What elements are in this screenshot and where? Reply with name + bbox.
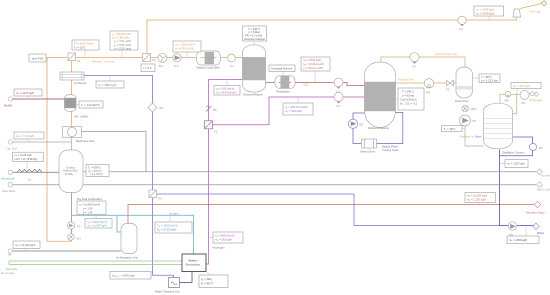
svg-text:yₚ = 89.68 vol%: yₚ = 89.68 vol% [112,32,131,36]
wire navy water product [500,225,535,227]
pump P5 [460,115,477,126]
svg-text:mₜ = 1187 kg/h: mₜ = 1187 kg/h [507,162,525,166]
rehydrator vessel [275,76,295,94]
svg-text:T = 38°C: T = 38°C [481,75,492,79]
label box recycle conditions [72,40,99,58]
screw feeder S1 [17,169,42,181]
wire purple hydrogen riser [206,80,243,265]
wire navy water treatment link [180,272,193,283]
valve V2 [205,121,218,134]
label box MeOH feed [14,89,42,99]
compressor C4 [410,53,419,69]
label box ethanol reactor data [243,26,267,45]
svg-text:Activated Alumina: Activated Alumina [271,67,293,71]
svg-text:V3: V3 [446,88,450,92]
wire olive purge overhead [500,94,534,103]
bottom ash diamond [537,182,543,188]
label box oxygen makeup [155,215,192,233]
label box nitrogen argon [465,193,496,205]
svg-text:V1: V1 [77,59,81,63]
svg-text:GR - SiAlKL: GR - SiAlKL [74,115,89,119]
svg-text:V6: V6 [152,58,156,62]
svg-text:Oxygen: Oxygen [169,211,179,215]
svg-text:ηₖ = 320ₖₖ: ηₖ = 320ₖₖ [201,277,214,281]
wire orange product gas [396,82,458,84]
compressor C2 [334,78,343,94]
svg-text:C3: C3 [336,104,340,108]
svg-text:VP4: VP4 [471,107,477,111]
pump P3 [67,222,81,229]
svg-text:Vₖ = 171 m³: Vₖ = 171 m³ [88,169,102,173]
svg-text:Cooling Cycle: Cooling Cycle [382,148,399,152]
label methanol water [460,134,482,138]
svg-text:M3: M3 [426,91,430,95]
wire olive unconverted gas loop [381,57,465,67]
wire dark woodchips feed [13,171,60,173]
svg-text:Electricity: Electricity [6,267,18,271]
svg-text:mₙ = 11,594 kg/h: mₙ = 11,594 kg/h [467,194,488,198]
condenser HX [60,72,87,85]
svg-text:B2: B2 [160,106,164,110]
svg-text:B-1: B-1 [159,64,164,68]
svg-text:T = 240°C: T = 240°C [402,90,414,94]
svg-text:nₐ = 13.09 kmol/h: nₐ = 13.09 kmol/h [303,62,324,66]
label box electrolyzer data [199,272,228,288]
svg-text:Water: Water [537,231,544,235]
label box vapor fraction [141,64,155,72]
svg-text:Steam Drum: Steam Drum [360,150,376,154]
svg-text:Purge gas: Purge gas [530,98,543,102]
wire dark-red CO2 line [266,83,366,86]
wire gray liquid water line [13,141,72,143]
label box flue to flare [474,6,504,20]
fly ash diamond [537,169,543,175]
svg-text:mₙ = 107 kg/h: mₙ = 107 kg/h [513,84,530,88]
svg-text:V2: V2 [214,130,218,134]
svg-text:Dry Fuel Combustion: Dry Fuel Combustion [77,197,103,201]
svg-text:Absolute Catalyst: Absolute Catalyst [244,37,265,41]
svg-text:PR = 0.2 vol%: PR = 0.2 vol% [245,34,263,38]
svg-text:nₘ = 6493 Nm³/h: nₘ = 6493 Nm³/h [87,220,108,224]
svg-text:nₚ = 193 Nm³/h: nₚ = 193 Nm³/h [216,87,235,91]
svg-text:mₚ = 8.03 kmol/h: mₚ = 8.03 kmol/h [216,90,237,94]
steam drum [360,139,377,154]
svg-text:Tₖ = 850°C: Tₖ = 850°C [88,165,101,169]
label box recycle composition [110,31,138,58]
svg-text:mₐ = 1,150 kg/h: mₐ = 1,150 kg/h [467,198,486,202]
svg-text:τ = 1.3 s(?): τ = 1.3 s(?) [90,172,103,176]
valve VP4 [462,105,476,111]
label boiling water cycle [382,145,399,153]
svg-text:mₐ = 5791 kg/h: mₐ = 5791 kg/h [303,58,322,62]
node Vent PSA [29,54,46,62]
svg-text:P-2: P-2 [174,64,179,68]
svg-text:mₐ = 14,000 kg/h: mₐ = 14,000 kg/h [15,243,36,247]
label box H2 to reactor [214,80,240,96]
junction diamond B2 [148,103,163,112]
svg-text:B3: B3 [360,123,364,127]
label box purge flow [511,83,541,95]
nitrogen diamond [534,201,540,207]
wire blue reboiler loop [500,137,533,156]
label box activated alumina [269,65,295,76]
svg-text:p = 19bar: p = 19bar [249,30,261,34]
guard bed vessel [196,51,221,70]
compressor C3 [334,93,343,109]
VdB vessel [65,94,89,118]
svg-text:MeOH: MeOH [4,104,12,108]
svg-text:Tₖ = 38°C: Tₖ = 38°C [444,127,456,131]
svg-text:T = 240°C: T = 240°C [248,27,260,31]
label electricity [1,267,18,275]
svg-text:mₘ₂ₖ ₖ = 5056 kg/h: mₘ₂ₖ ₖ = 5056 kg/h [112,274,135,278]
svg-text:Methanol Reactor: Methanol Reactor [368,126,389,130]
svg-text:Bottom ash: Bottom ash [537,188,550,192]
ethanol reactor [243,45,266,97]
methanol reactor [365,62,396,130]
svg-text:p = 1-23.5 bar: p = 1-23.5 bar [481,78,498,82]
distillation column [484,103,525,154]
svg-text:Pₖ = 98 77: Pₖ = 98 77 [201,282,214,286]
svg-text:x = 0.5: x = 0.5 [143,66,152,70]
svg-text:Cu/ZnO/Al₂O₃: Cu/ZnO/Al₂O₃ [400,98,417,102]
wire blue condensate [84,76,153,191]
svg-text:M5: M5 [505,99,509,103]
svg-text:Ethanol Reactor: Ethanol Reactor [244,93,263,97]
wire gray flue gas out [83,171,536,173]
terminal liq water [8,140,12,144]
wire red nitrogen-argon [128,205,534,225]
terminal woodchips [8,170,12,174]
label box H2 to methanol [283,97,313,115]
svg-text:Water Treatment Unit: Water Treatment Unit [155,290,180,294]
wire gray bottom ash out [13,184,537,186]
wire gray filter branch [82,132,147,172]
svg-text:H₂ : CO₂ = 3:1: H₂ : CO₂ = 3:1 [400,102,418,106]
pump P2 [173,54,181,68]
valve V4 [149,190,162,201]
label box air feed [13,241,40,251]
water treatment unit [155,278,180,294]
label box incinerator data [86,165,109,177]
wire recycle main orange [46,57,243,59]
wire dark-red MeOH feed [13,98,66,100]
svg-text:nₑ = 8.35 Nm³/h: nₑ = 8.35 Nm³/h [175,47,194,51]
wire dark air feed [13,250,122,252]
svg-text:yₛ = 7.61 vol%: yₛ = 7.61 vol% [114,39,132,43]
svg-text:Unconverted Gas: Unconverted Gas [435,52,457,56]
svg-text:Electrolyzer: Electrolyzer [186,263,201,267]
svg-text:mₖ = 2244 kg/h: mₖ = 2244 kg/h [476,7,495,11]
wire orange vertical to combustor [47,58,72,242]
wire teal oxygen header [72,215,194,254]
svg-text:CO₂: CO₂ [304,83,309,87]
pump P6w [508,222,516,237]
gauge M3 [424,79,433,95]
svg-text:Pₐ = 6023 Pa(G): Pₐ = 6023 Pa(G) [74,42,94,46]
wire orange flare header [147,17,517,54]
svg-text:Nitrogen Argon: Nitrogen Argon [526,211,545,215]
svg-text:nₚ = 260.07 kmol/h: nₚ = 260.07 kmol/h [285,105,308,109]
wire teal oxygen ASU branch [117,215,121,232]
svg-text:P6: P6 [522,101,526,105]
svg-text:P3: P3 [77,225,81,229]
water diamond [533,223,539,229]
svg-text:B5: B5 [213,108,217,112]
terminal bed sand [8,183,12,187]
svg-text:Woodchips: Woodchips [1,177,15,181]
svg-text:20 MWₜₚ: 20 MWₜₚ [65,173,74,176]
alkaline electrolyzer [182,254,206,272]
label box CO2 stream [301,57,330,83]
svg-text:C4: C4 [412,65,416,69]
svg-text:Pₘ = 271/2 kg/h: Pₘ = 271/2 kg/h [157,228,177,232]
svg-text:Condenser: Condenser [74,81,87,85]
flash drum [455,67,472,103]
svg-text:Recycle - Dry mix: Recycle - Dry mix [92,60,115,64]
label box liq water flow [14,132,44,142]
svg-text:Tₘ = 1500 Nm³/h: Tₘ = 1500 Nm³/h [157,224,178,228]
svg-text:Ultra Sand: Ultra Sand [2,189,16,193]
svg-text:nₚ = 2900 Nm³/h: nₚ = 2900 Nm³/h [215,234,235,238]
svg-text:C5: C5 [459,27,463,31]
svg-text:Rehydrator: Rehydrator [277,90,290,94]
svg-text:Flue Gas: Flue Gas [530,10,542,14]
valve V6 [143,54,156,63]
svg-text:Tₖ = 140-610°C: Tₖ = 140-610°C [81,103,100,107]
terminal air [8,249,12,253]
svg-text:Air: Air [8,253,11,257]
svg-text:Tₐ = 25°C: Tₐ = 25°C [74,46,86,50]
blower B1 [158,53,167,68]
svg-text:Vent PSA: Vent PSA [32,56,44,60]
label box oxygen flow [85,215,112,228]
svg-text:P5: P5 [473,119,477,123]
svg-text:Boiling Water: Boiling Water [382,145,398,149]
label box compressor duty [173,41,201,58]
svg-text:α = 1.06: α = 1.06 [83,206,93,210]
svg-text:y₝ = 13.81 ppm: y₝ = 13.81 ppm [114,46,132,50]
svg-text:Liq. H₂O: Liq. H₂O [7,146,18,150]
wire feed to column [465,126,484,146]
svg-text:mₖ = 2240 kg/h: mₖ = 2240 kg/h [476,11,495,15]
gauge M5 [505,91,511,102]
svg-text:Distillation Column: Distillation Column [502,151,525,155]
wire navy column bottoms [499,150,501,226]
terminal MeOH [8,97,12,101]
check valve H2 [206,106,217,112]
label box methanol temp [442,126,466,132]
label box water product [507,226,539,243]
svg-text:mₖ = 1150 kg/h: mₖ = 1150 kg/h [509,238,528,242]
blower W1 [68,234,82,241]
svg-text:mₘ = 6,687 kg/h: mₘ = 6,687 kg/h [87,224,107,228]
wire purple hydrogen to methanol reactor [213,97,366,125]
svg-text:S1: S1 [28,178,32,182]
wire orange condenser chain [71,60,73,150]
pump B3 [348,119,363,128]
flare stack [513,9,521,17]
svg-text:Hydrogen: Hydrogen [213,246,226,250]
circle C1 [228,54,236,68]
svg-text:mₚ = 524 kg/h: mₚ = 524 kg/h [285,109,302,113]
label box flash drum data [472,74,500,83]
svg-text:yₐ = 99 vol.-vol%: yₐ = 99 vol.-vol% [303,66,324,70]
svg-text:mₗ = 6128 kg/h: mₗ = 6128 kg/h [15,153,33,157]
label box biomass feed [13,152,44,172]
label dry fuel combustion [77,197,106,215]
svg-text:C1: C1 [230,64,234,68]
incinerator vessel [59,150,83,193]
ASU vessel [116,224,138,260]
svg-text:Baghouse Filter: Baghouse Filter [76,139,95,143]
svg-text:Water: Water [475,134,482,138]
svg-text:mₘ = 7.23 kg/h: mₘ = 7.23 kg/h [16,134,35,138]
wire combustor downcomer [71,193,73,242]
wire olive reflux return [513,94,517,114]
svg-text:V4: V4 [158,197,162,201]
valve V1 [68,53,81,63]
compressor C5 [458,16,466,31]
svg-text:p = 80 bar: p = 80 bar [402,94,414,98]
svg-text:(to on-site): (to on-site) [1,271,14,275]
svg-text:mₖ = 1147 kg/h: mₖ = 1147 kg/h [16,91,35,95]
svg-text:B4: B4 [539,146,543,150]
svg-text:Methanol: Methanol [460,134,471,138]
wire blue condensate to water outlet [157,194,500,226]
wire orange flare tip to diamond [520,3,542,8]
purge diamond [534,92,538,96]
flue gas diamond [541,1,546,6]
label box bottoms flow [500,160,528,168]
svg-text:Flash Drum: Flash Drum [455,99,470,103]
label box VdB temp [76,101,103,108]
label box condensate flow [96,76,124,89]
wire green electricity pair [9,261,182,265]
svg-text:Fly ash: Fly ash [541,173,550,177]
svg-text:yₜ = 8.01 vol%: yₜ = 8.01 vol% [114,43,132,47]
pump B4 [529,143,543,150]
svg-text:β = 1.46: β = 1.46 [83,210,93,214]
regenerator filter [63,127,95,144]
label box hydrogen flow [209,232,243,243]
label box makeup water [110,272,151,280]
wire blue steam drum loop [353,113,403,144]
svg-text:mₖ = 4894 kg/h: mₖ = 4894 kg/h [98,83,117,87]
svg-text:nₖ = (3,445) Nm³/h: nₖ = (3,445) Nm³/h [79,202,101,206]
svg-text:Air Separation Unit: Air Separation Unit [116,256,138,260]
condenser P6r [520,90,534,105]
wire blue condensate below valve [153,198,174,278]
svg-text:LHV = 11.78 MJ/kg: LHV = 11.78 MJ/kg [15,157,38,161]
svg-text:Product Gas: Product Gas [398,78,414,82]
svg-text:Catalyst Guard Bed: Catalyst Guard Bed [196,66,220,70]
svg-text:yₙ = 2.88 vol%: yₙ = 2.88 vol% [112,36,130,40]
svg-text:mₚ = 261 kg/h: mₚ = 261 kg/h [215,238,232,242]
check valve V3 [446,80,454,91]
svg-text:nₐ = 1,960 Nm³/h: nₐ = 1,960 Nm³/h [175,43,196,47]
label box methanol reactor data [396,88,425,110]
svg-text:W1: W1 [77,237,82,241]
